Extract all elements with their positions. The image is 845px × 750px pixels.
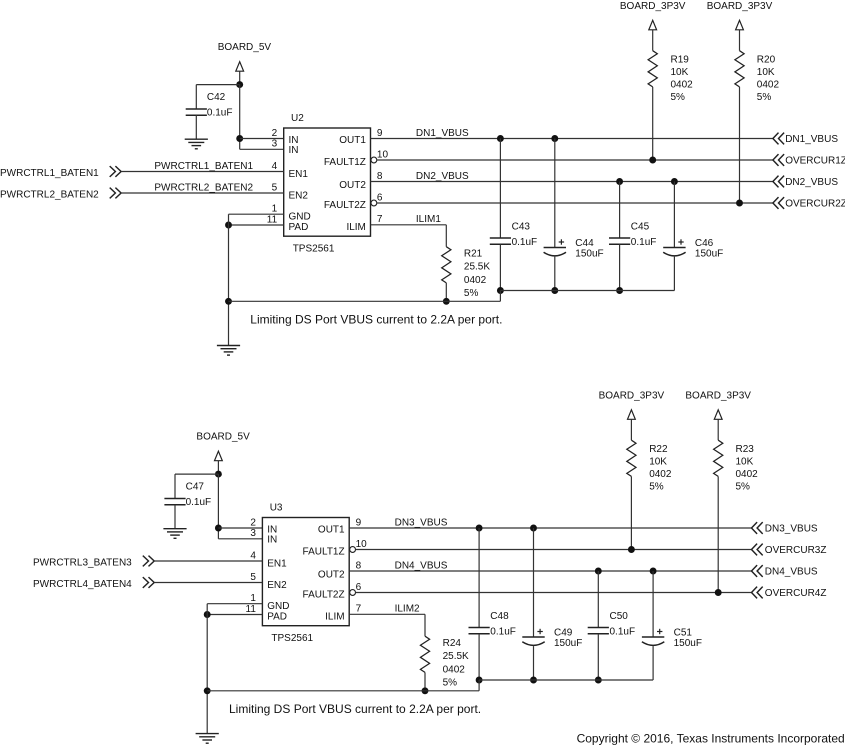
svg-text:3: 3: [250, 528, 256, 539]
wire net OVERCUR1Z: [377, 159, 773, 161]
junction R21 to rail: [443, 298, 450, 305]
junction at IN pin 2: [215, 525, 222, 532]
svg-text:0.1uF: 0.1uF: [512, 237, 538, 248]
svg-text:Copyright © 2016, Texas Instru: Copyright © 2016, Texas Instruments Inco…: [577, 731, 845, 745]
svg-text:150uF: 150uF: [695, 249, 723, 260]
svg-text:PWRCTRL2_BATEN2: PWRCTRL2_BATEN2: [154, 182, 253, 193]
junction C43 top: [497, 135, 504, 142]
power flag BOARD_5V bottom: [215, 451, 223, 461]
capacitor C50: [588, 627, 609, 629]
wire lower ground rail: [207, 690, 479, 692]
svg-text:DN1_VBUS: DN1_VBUS: [416, 128, 469, 139]
svg-text:DN1_VBUS: DN1_VBUS: [785, 134, 838, 145]
wire net OVERCUR3Z: [356, 549, 752, 551]
off-page connector PWRCTRL2_BATEN2: [110, 188, 121, 199]
svg-text:FAULT1Z: FAULT1Z: [324, 157, 366, 168]
junction C44 top: [551, 135, 558, 142]
wire pin 5 PWRCTRL4_BATEN4: [154, 582, 262, 584]
capacitor C51: [642, 636, 664, 638]
svg-text:25.5K: 25.5K: [443, 651, 469, 662]
wire lower ground rail: [229, 300, 501, 302]
svg-text:5%: 5%: [464, 288, 479, 299]
svg-text:C46: C46: [695, 238, 714, 249]
wire C48 bottom lead: [478, 634, 480, 680]
wire net DN1_VBUS: [371, 138, 773, 140]
wire to bypass cap: [196, 84, 239, 86]
svg-text:EN1: EN1: [289, 169, 309, 180]
svg-text:R23: R23: [736, 444, 755, 455]
svg-text:10K: 10K: [649, 457, 667, 468]
wire C47 bottom lead: [174, 505, 176, 529]
wire ground vertical: [206, 604, 208, 734]
wire C44 bottom lead: [554, 257, 556, 291]
svg-text:GND: GND: [289, 212, 311, 223]
wire C50 bottom lead: [597, 634, 599, 680]
svg-text:C47: C47: [186, 481, 205, 492]
svg-text:10K: 10K: [736, 457, 754, 468]
resistor R23: [714, 440, 723, 476]
junction C50 bottom: [595, 677, 602, 684]
junction R19 on OVERCUR1Z: [649, 157, 656, 164]
wire power stem: [217, 461, 219, 474]
wire ground vertical: [228, 214, 230, 345]
wire R22 to OVERCUR3Z: [630, 476, 632, 549]
wire pin 2 IN: [218, 527, 262, 529]
svg-text:5: 5: [272, 182, 278, 193]
junction ground rail: [204, 687, 211, 694]
ground under U2: [217, 345, 240, 347]
svg-text:TPS2561: TPS2561: [293, 243, 335, 254]
resistor R22: [627, 440, 636, 476]
svg-text:FAULT1Z: FAULT1Z: [303, 546, 345, 557]
wire R20 top lead: [739, 30, 741, 51]
svg-text:EN2: EN2: [267, 580, 287, 591]
svg-text:6: 6: [356, 582, 362, 593]
svg-text:10K: 10K: [671, 67, 689, 78]
power flag power flag BOARD_3P3V R23: [714, 410, 722, 420]
wire rail step: [499, 291, 501, 302]
junction C50 top: [595, 568, 602, 575]
capacitor C49: [522, 636, 544, 638]
wire pin 7 ILIM2: [349, 613, 425, 615]
svg-text:OUT2: OUT2: [339, 180, 366, 191]
wire net OVERCUR2Z: [377, 202, 773, 204]
svg-text:OUT2: OUT2: [318, 570, 345, 581]
off-page connector OVERCUR1Z: [773, 154, 784, 166]
svg-text:7: 7: [356, 604, 362, 615]
wire R21 top lead: [445, 225, 447, 247]
wire pin 1 GND: [207, 603, 262, 605]
svg-text:10K: 10K: [757, 67, 775, 78]
ground under C42: [185, 138, 208, 140]
svg-text:5%: 5%: [443, 678, 458, 689]
ground under C47: [163, 528, 186, 530]
wire pin 2 IN: [240, 138, 284, 140]
svg-text:11: 11: [246, 604, 257, 615]
svg-text:ILIM: ILIM: [346, 222, 365, 233]
junction C46 top: [671, 178, 678, 185]
svg-text:BOARD_3P3V: BOARD_3P3V: [620, 1, 686, 12]
wire pin 1 GND: [229, 213, 284, 215]
svg-text:2: 2: [272, 128, 278, 139]
off-page connector OVERCUR4Z: [752, 587, 763, 599]
svg-text:10: 10: [377, 149, 389, 160]
junction C49 top: [530, 525, 537, 532]
svg-text:150uF: 150uF: [554, 638, 582, 649]
junction R22 on OVERCUR3Z: [628, 546, 635, 553]
svg-text:EN2: EN2: [289, 190, 309, 201]
svg-text:Limiting DS Port VBUS current: Limiting DS Port VBUS current to 2.2A pe…: [250, 312, 502, 326]
svg-text:0.1uF: 0.1uF: [207, 107, 233, 118]
capacitor C44: [544, 247, 566, 249]
wire C47 top lead: [174, 474, 176, 498]
svg-text:3: 3: [272, 139, 278, 150]
svg-text:C44: C44: [575, 238, 594, 249]
wire R20 to OVERCUR2Z: [739, 87, 741, 203]
wire power stem: [239, 71, 241, 84]
svg-text:R22: R22: [649, 444, 668, 455]
svg-text:5%: 5%: [736, 482, 751, 493]
svg-text:0402: 0402: [757, 80, 780, 91]
wire C46 bottom lead: [673, 257, 675, 291]
off-page connector PWRCTRL1_BATEN1: [110, 166, 121, 177]
junction C48 bottom: [476, 677, 483, 684]
svg-text:R21: R21: [464, 248, 483, 259]
junction C48 top: [476, 525, 483, 532]
junction C43 bottom: [497, 287, 504, 294]
svg-text:0.1uF: 0.1uF: [490, 627, 516, 638]
off-page connector PWRCTRL3_BATEN3: [143, 556, 154, 567]
svg-text:C45: C45: [631, 221, 650, 232]
junction C49 bottom: [530, 677, 537, 684]
power flag power flag BOARD_3P3V R22: [628, 410, 636, 420]
svg-text:GND: GND: [267, 601, 289, 612]
svg-text:C49: C49: [554, 628, 573, 639]
svg-text:R24: R24: [443, 638, 462, 649]
junction C45 bottom: [616, 287, 623, 294]
wire rail step: [478, 680, 480, 691]
IC U3 TPS2561: [262, 518, 349, 626]
wire pin 3 IN: [218, 538, 262, 540]
svg-text:150uF: 150uF: [575, 249, 603, 260]
capacitor C45: [609, 237, 630, 239]
svg-text:OUT1: OUT1: [318, 525, 345, 536]
wire C51 top lead: [652, 571, 654, 637]
svg-text:0.1uF: 0.1uF: [631, 237, 657, 248]
capacitor capacitor C42: [186, 108, 207, 110]
svg-text:1: 1: [272, 204, 278, 215]
junction at IN pin 2: [236, 135, 243, 142]
wire C42 bottom lead: [195, 115, 197, 139]
svg-text:FAULT2Z: FAULT2Z: [303, 589, 345, 600]
svg-text:TPS2561: TPS2561: [271, 633, 313, 644]
wire net OVERCUR4Z: [356, 592, 752, 594]
svg-text:PWRCTRL3_BATEN3: PWRCTRL3_BATEN3: [33, 558, 132, 569]
svg-text:150uF: 150uF: [674, 638, 702, 649]
svg-text:0402: 0402: [649, 469, 672, 480]
wire R22 top lead: [630, 419, 632, 440]
svg-text:C43: C43: [512, 221, 531, 232]
wire C45 bottom lead: [619, 244, 621, 290]
svg-text:ILIM1: ILIM1: [416, 214, 441, 225]
wire C42 top lead: [195, 85, 197, 109]
svg-text:PWRCTRL2_BATEN2: PWRCTRL2_BATEN2: [0, 190, 99, 201]
wire R24 bottom lead: [424, 672, 426, 690]
wire upper ground rail: [500, 290, 674, 292]
svg-text:DN3_VBUS: DN3_VBUS: [395, 517, 448, 528]
wire pin 4 PWRCTRL1_BATEN1: [121, 171, 284, 173]
svg-text:7: 7: [377, 214, 383, 225]
wire pin 3 IN: [240, 148, 284, 150]
svg-text:OVERCUR4Z: OVERCUR4Z: [765, 588, 827, 599]
power flag power flag BOARD_3P3V R19: [649, 20, 657, 30]
svg-text:0.1uF: 0.1uF: [186, 497, 212, 508]
svg-text:5%: 5%: [671, 92, 686, 103]
svg-text:5: 5: [250, 572, 256, 583]
svg-text:R20: R20: [757, 54, 776, 65]
wire 5V rail to IN pins: [239, 85, 241, 150]
capacitor capacitor C47: [164, 498, 185, 500]
wire C49 top lead: [533, 528, 535, 637]
off-page connector DN4_VBUS: [752, 565, 763, 577]
junction C51 top: [650, 568, 657, 575]
resistor R20: [735, 51, 744, 87]
resistor R19: [648, 51, 657, 87]
wire C43 bottom lead: [499, 244, 501, 290]
off-page connector DN3_VBUS: [752, 522, 763, 534]
svg-text:25.5K: 25.5K: [464, 262, 490, 273]
IC U2 TPS2561: [284, 128, 371, 236]
svg-text:U3: U3: [270, 503, 283, 514]
svg-text:9: 9: [377, 128, 383, 139]
wire to bypass cap: [175, 473, 218, 475]
junction pin11/gnd vertical: [225, 222, 232, 229]
svg-text:5%: 5%: [649, 482, 664, 493]
svg-text:U2: U2: [291, 113, 304, 124]
svg-text:C42: C42: [207, 92, 226, 103]
capacitor C48: [469, 627, 490, 629]
power flag power flag BOARD_3P3V R20: [736, 20, 744, 30]
wire C43 top lead: [499, 139, 501, 239]
svg-text:9: 9: [356, 517, 362, 528]
wire net DN3_VBUS: [349, 527, 751, 529]
wire C49 bottom lead: [533, 646, 535, 680]
svg-text:PWRCTRL4_BATEN4: PWRCTRL4_BATEN4: [33, 579, 132, 590]
svg-text:PAD: PAD: [267, 611, 287, 622]
svg-text:C50: C50: [610, 611, 629, 622]
svg-text:Limiting DS Port VBUS current: Limiting DS Port VBUS current to 2.2A pe…: [229, 702, 481, 716]
wire R23 to OVERCUR4Z: [717, 476, 719, 592]
wire pin 11 PAD: [229, 224, 284, 226]
wire R23 top lead: [717, 419, 719, 440]
svg-text:ILIM: ILIM: [325, 611, 344, 622]
off-page connector PWRCTRL4_BATEN4: [143, 577, 154, 588]
svg-text:IN: IN: [267, 535, 277, 546]
off-page connector DN1_VBUS: [773, 133, 784, 145]
wire C45 top lead: [619, 182, 621, 239]
junction ground rail: [225, 298, 232, 305]
wire C46 top lead: [673, 182, 675, 248]
off-page connector DN2_VBUS: [773, 176, 784, 188]
ground under U3: [196, 733, 219, 735]
capacitor C46: [663, 247, 685, 249]
wire R19 top lead: [652, 30, 654, 51]
svg-text:PWRCTRL1_BATEN1: PWRCTRL1_BATEN1: [154, 161, 253, 172]
svg-text:8: 8: [377, 171, 383, 182]
svg-text:6: 6: [377, 192, 383, 203]
svg-text:BOARD_3P3V: BOARD_3P3V: [685, 390, 751, 401]
svg-text:1: 1: [250, 593, 256, 604]
svg-text:ILIM2: ILIM2: [395, 604, 420, 615]
wire C50 top lead: [597, 571, 599, 628]
svg-text:2: 2: [250, 517, 256, 528]
wire pin 5 PWRCTRL2_BATEN2: [121, 192, 284, 194]
wire C48 top lead: [478, 528, 480, 628]
junction R20 on OVERCUR2Z: [736, 200, 743, 207]
svg-text:11: 11: [267, 214, 278, 225]
svg-text:OVERCUR2Z: OVERCUR2Z: [785, 199, 845, 210]
svg-text:IN: IN: [289, 145, 299, 156]
svg-text:PWRCTRL1_BATEN1: PWRCTRL1_BATEN1: [0, 168, 99, 179]
wire pin 7 ILIM1: [371, 224, 447, 226]
junction power node: [236, 81, 243, 88]
svg-text:C48: C48: [490, 611, 509, 622]
svg-text:BOARD_3P3V: BOARD_3P3V: [599, 390, 665, 401]
off-page connector OVERCUR3Z: [752, 544, 763, 556]
capacitor C43: [490, 237, 511, 239]
junction power node: [215, 471, 222, 478]
svg-text:10: 10: [356, 539, 368, 550]
junction R24 to rail: [422, 687, 429, 694]
junction C45 top: [616, 178, 623, 185]
svg-text:OVERCUR1Z: OVERCUR1Z: [785, 156, 845, 167]
inversion bubble pin 10: [350, 547, 356, 553]
svg-text:R19: R19: [671, 54, 690, 65]
wire pin 4 PWRCTRL3_BATEN3: [154, 560, 262, 562]
svg-text:C51: C51: [674, 628, 693, 639]
resistor R24: [420, 636, 429, 672]
svg-text:PAD: PAD: [289, 222, 309, 233]
svg-text:DN2_VBUS: DN2_VBUS: [416, 171, 469, 182]
inversion bubble pin 6: [350, 590, 356, 596]
wire upper ground rail: [479, 679, 653, 681]
wire C44 top lead: [554, 139, 556, 248]
junction pin11/gnd vertical: [204, 611, 211, 618]
wire R19 to OVERCUR1Z: [652, 87, 654, 160]
svg-text:BOARD_5V: BOARD_5V: [218, 42, 272, 53]
svg-text:OVERCUR3Z: OVERCUR3Z: [765, 545, 827, 556]
svg-text:0402: 0402: [671, 80, 694, 91]
wire R21 bottom lead: [445, 283, 447, 301]
svg-text:4: 4: [250, 550, 256, 561]
wire pin 11 PAD: [207, 614, 262, 616]
svg-text:0402: 0402: [443, 664, 466, 675]
svg-text:0402: 0402: [736, 469, 759, 480]
off-page connector OVERCUR2Z: [773, 197, 784, 209]
svg-text:DN2_VBUS: DN2_VBUS: [785, 177, 838, 188]
svg-text:BOARD_5V: BOARD_5V: [196, 432, 250, 443]
svg-text:BOARD_3P3V: BOARD_3P3V: [707, 1, 773, 12]
wire C51 bottom lead: [652, 646, 654, 680]
svg-text:DN4_VBUS: DN4_VBUS: [765, 567, 818, 578]
wire net DN2_VBUS: [371, 181, 773, 183]
svg-text:4: 4: [272, 161, 278, 172]
svg-text:0402: 0402: [464, 275, 487, 286]
inversion bubble pin 6: [371, 200, 377, 206]
svg-text:EN1: EN1: [267, 559, 287, 570]
svg-text:8: 8: [356, 560, 362, 571]
svg-text:FAULT2Z: FAULT2Z: [324, 200, 366, 211]
svg-text:5%: 5%: [757, 92, 772, 103]
inversion bubble pin 10: [371, 157, 377, 163]
junction C44 bottom: [551, 287, 558, 294]
wire net DN4_VBUS: [349, 570, 751, 572]
svg-text:DN3_VBUS: DN3_VBUS: [765, 524, 818, 535]
svg-text:0.1uF: 0.1uF: [610, 627, 636, 638]
power flag BOARD_5V top: [236, 62, 244, 71]
svg-text:DN4_VBUS: DN4_VBUS: [395, 560, 448, 571]
resistor R21: [442, 247, 451, 283]
junction R23 on OVERCUR4Z: [715, 589, 722, 596]
svg-text:OUT1: OUT1: [339, 135, 366, 146]
wire 5V rail to IN pins: [217, 474, 219, 539]
wire R24 top lead: [424, 614, 426, 636]
